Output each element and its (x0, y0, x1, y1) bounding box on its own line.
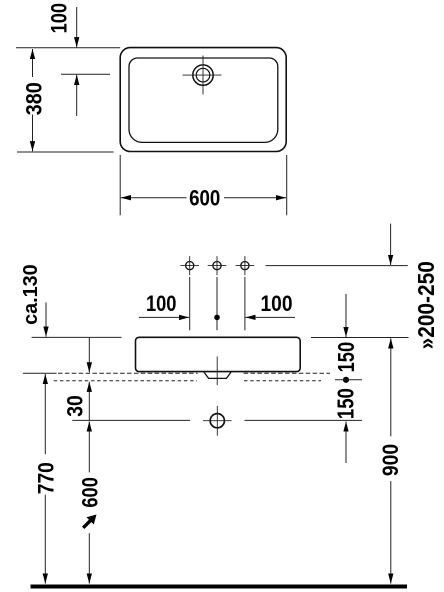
extension line siphon height (72, 419, 190, 421)
basin outer outline (plan) (120, 48, 286, 152)
counter top line dashed right (244, 372, 330, 374)
drain hole circle (elevation) (210, 414, 224, 428)
svg-text:600: 600 (189, 185, 220, 210)
dimension 600 line right segment (plan) (224, 197, 286, 199)
dimension 30 upper arrow (88, 338, 90, 373)
faucet hole inner circle (plan) (196, 68, 210, 82)
svg-text:ca.130: ca.130 (20, 264, 42, 325)
svg-text:600: 600 (78, 477, 103, 508)
dimension 100 right line (elevation) (246, 316, 296, 318)
svg-text:»200-250: »200-250 (413, 261, 439, 349)
extension line siphon height right part (245, 419, 362, 421)
short reference line through 150 dot (335, 379, 362, 381)
dimension 770 lower segment (44, 495, 46, 584)
adjustable height arrow symbol (83, 515, 96, 528)
counter top line dashed left (58, 372, 198, 374)
dimension 770 upper segment (44, 374, 46, 454)
floor line (31, 585, 408, 589)
dimension 150 lower arrow (345, 422, 347, 464)
svg-text:770: 770 (34, 462, 59, 494)
faucet crosshair vertical (plan) (202, 56, 204, 95)
svg-text:900: 900 (378, 444, 403, 476)
dimension 900 upper segment (390, 338, 392, 436)
dimension 380 line lower segment (32, 115, 34, 152)
svg-text:30: 30 (62, 395, 87, 417)
crosshair right hole horizontal (236, 265, 255, 267)
dimension 200-250 arrow (390, 224, 392, 265)
dimension 150 upper arrow (345, 294, 347, 337)
extension line top edge (plan) (16, 47, 120, 49)
crosshair center hole horizontal (208, 265, 227, 267)
dimension 100 lower arrow (plan) (76, 75, 78, 116)
faucet hole outer circle (plan) (193, 65, 213, 85)
dimension 600 upper arrow (elevation) (88, 421, 90, 472)
extension line faucet row to right (266, 265, 408, 267)
dimension ca.130 arrow (45, 303, 47, 337)
drain hole crosshair horizontal (203, 420, 231, 422)
extension line faucet center (plan) (61, 73, 110, 75)
counter bottom line dashed left (54, 380, 197, 382)
faucet hole circle right (elevation) (241, 262, 249, 270)
drain hole crosshair vertical (216, 406, 218, 436)
dimension 30 lower arrow (88, 382, 90, 421)
crosshair center hole vertical (216, 256, 218, 275)
dimension 100 left line (elevation) (139, 316, 189, 318)
counter top line solid left (23, 372, 57, 374)
reference line below center hole (216, 277, 218, 330)
counter bottom line dashed right (244, 380, 321, 382)
crosshair left hole horizontal (180, 265, 199, 267)
extension line rim left (32, 336, 122, 338)
svg-text:150: 150 (333, 342, 359, 373)
dimension 600 line left segment (plan) (121, 197, 187, 199)
extension line 600 right (plan) (286, 155, 288, 215)
faucet hole circle left (elevation) (186, 262, 194, 270)
faucet hole circle center (elevation) (213, 262, 221, 270)
drain center line (elevation) (216, 357, 218, 386)
dimension 380 line upper segment (32, 49, 34, 77)
reference line below left hole (189, 277, 191, 330)
extension line 600 left (plan) (119, 155, 121, 215)
svg-text:100: 100 (47, 3, 72, 34)
dimension 600 lower segment (elevation) (88, 533, 90, 583)
svg-text:100: 100 (261, 291, 293, 316)
svg-text:150: 150 (333, 388, 359, 419)
faucet crosshair horizontal (plan) (183, 74, 222, 76)
dimension 100 upper arrow (plan) (76, 7, 78, 47)
dimension 900 lower segment (390, 481, 392, 583)
crosshair left hole vertical (189, 256, 191, 275)
extension line rim right (311, 337, 409, 339)
crosshair right hole vertical (244, 256, 246, 275)
basin outline (elevation) (136, 337, 301, 371)
svg-text:100: 100 (146, 291, 177, 316)
reference line below right hole (244, 277, 246, 330)
basin inner rim (plan) (129, 58, 278, 142)
extension line bottom edge left (plan) (17, 151, 114, 153)
center dot between 100 dimensions (214, 315, 220, 321)
svg-text:380: 380 (22, 82, 47, 115)
dot between 150 dimensions (343, 377, 349, 383)
drain recess trapezoid (elevation) (204, 372, 231, 379)
